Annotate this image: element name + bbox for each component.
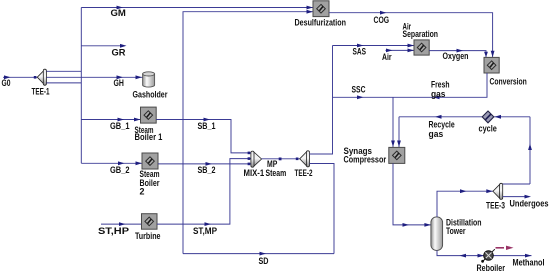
compressor Synags — [344, 146, 405, 164]
svg-text:Separation: Separation — [403, 29, 439, 39]
wire desulf second feed — [183, 12, 313, 254]
svg-text:Methanol: Methanol — [513, 257, 545, 267]
svg-text:Desulfurization: Desulfurization — [295, 18, 347, 28]
stream SB_2 — [158, 162, 251, 175]
wire TEE-1 riser — [46, 8, 81, 164]
wire TEE-3 recycle out — [503, 183, 530, 185]
splitter TEE-2 — [295, 151, 313, 178]
wire tower overhead — [437, 189, 493, 217]
svg-text:SAS: SAS — [353, 46, 367, 56]
heater Steam Boiler 2 — [140, 153, 160, 196]
reboiler — [477, 249, 506, 272]
tower Distillation — [431, 217, 482, 251]
svg-text:Compressor: Compressor — [344, 154, 387, 164]
splitter TEE-1 — [32, 69, 50, 96]
svg-text:MIX-1: MIX-1 — [244, 168, 265, 178]
splitter TEE-3 — [486, 183, 505, 210]
block Desulfurization — [295, 1, 347, 28]
svg-text:GB_2: GB_2 — [110, 165, 130, 175]
stream GM — [81, 6, 313, 18]
wire recycle riser — [528, 117, 532, 184]
stream SSC — [333, 84, 394, 99]
stream GH — [46, 75, 142, 88]
svg-text:gas: gas — [431, 89, 446, 99]
svg-text:Undergoes: Undergoes — [510, 198, 549, 208]
stream Undergoes — [503, 195, 549, 209]
stream SAS — [333, 44, 415, 57]
svg-text:Oxygen: Oxygen — [443, 51, 469, 61]
svg-text:G0: G0 — [2, 78, 11, 88]
stream Fresh gas — [393, 73, 487, 99]
stream SB_1 — [156, 118, 251, 155]
svg-text:TEE-2: TEE-2 — [295, 168, 313, 178]
gasholder — [133, 72, 168, 100]
stream bottoms Methanol — [437, 250, 545, 267]
svg-text:Air: Air — [382, 52, 392, 62]
compressor cycle — [479, 111, 497, 133]
stream Air feed — [382, 49, 414, 63]
svg-text:gas: gas — [429, 129, 444, 139]
stream Oxygen — [429, 49, 488, 62]
svg-text:SB_2: SB_2 — [198, 165, 216, 175]
svg-text:TEE-3: TEE-3 — [486, 200, 505, 210]
svg-text:Conversion: Conversion — [490, 77, 527, 87]
stream SD — [183, 252, 334, 266]
stream GR — [81, 44, 126, 57]
svg-text:Gasholder: Gasholder — [133, 89, 168, 99]
svg-text:SD: SD — [259, 256, 269, 266]
svg-text:Boiler 1: Boiler 1 — [135, 132, 163, 142]
svg-text:2: 2 — [140, 186, 145, 196]
svg-text:ST,HP: ST,HP — [98, 226, 129, 236]
svg-text:TEE-1: TEE-1 — [32, 86, 50, 96]
wire TEE-2 top output riser — [310, 46, 333, 155]
stream ST,MP — [157, 157, 251, 236]
svg-text:SB_1: SB_1 — [198, 121, 216, 131]
stream GB_2 — [81, 161, 142, 174]
wire compressor feed 1 — [392, 97, 394, 147]
stream MP Steam — [262, 158, 300, 179]
svg-text:GH: GH — [114, 78, 124, 88]
stream ST,HP — [98, 222, 142, 236]
stream COG — [329, 11, 495, 58]
svg-text:Turbine: Turbine — [135, 231, 161, 241]
svg-text:Steam: Steam — [266, 168, 287, 178]
block Conversion — [484, 57, 527, 86]
svg-text:cycle: cycle — [479, 123, 497, 133]
turbine — [135, 214, 161, 241]
wire TEE-2 bottom output — [310, 164, 335, 254]
stream GB_1 — [81, 118, 140, 131]
svg-text:COG: COG — [374, 15, 390, 25]
stream G0 — [2, 75, 38, 88]
heater Steam Boiler 1 — [135, 107, 163, 142]
block Air Separation — [403, 22, 439, 55]
svg-text:GR: GR — [112, 47, 127, 57]
svg-text:GB_1: GB_1 — [110, 121, 130, 131]
svg-text:Reboiler: Reboiler — [477, 263, 506, 272]
heat stream arrow — [496, 246, 514, 250]
svg-text:Tower: Tower — [446, 226, 466, 236]
wire tower feed — [393, 163, 431, 226]
svg-text:GM: GM — [111, 8, 126, 18]
svg-text:SSC: SSC — [352, 84, 366, 94]
mixer MIX-1 — [244, 151, 265, 178]
svg-text:ST,MP: ST,MP — [193, 226, 217, 236]
stream Recycle gas — [397, 115, 530, 147]
